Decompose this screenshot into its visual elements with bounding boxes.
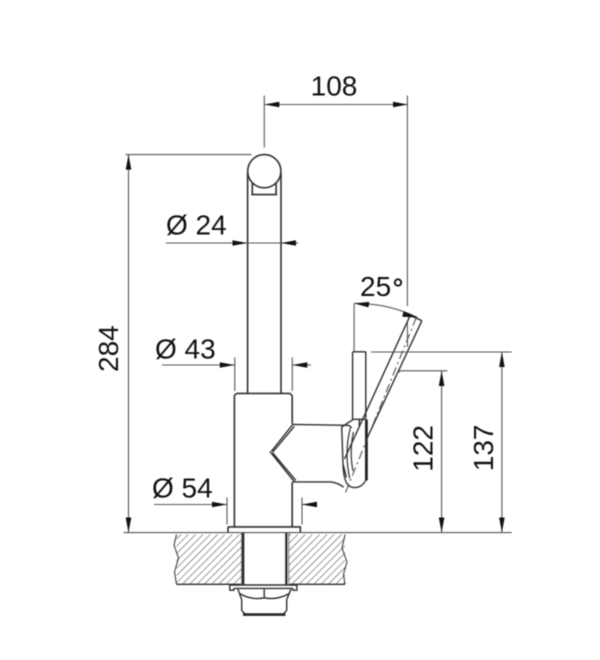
nut bottom thick edge: [243, 613, 285, 616]
hex nut body: [242, 599, 287, 615]
countertop surface line: [124, 532, 512, 534]
arrow D54 left: [212, 502, 227, 508]
arrow 122 bottom: [439, 518, 445, 533]
ext line D54 right: [301, 498, 303, 525]
arrow 284 bottom: [126, 518, 132, 533]
countertop hatch right block: [289, 535, 345, 585]
countertop hatch left block: [177, 535, 242, 585]
arrow 137 top: [499, 352, 505, 367]
counter hole walls: [241, 534, 289, 584]
dim line 108: [264, 104, 408, 106]
ext line 108 right: [406, 96, 408, 348]
arrow arc right: [402, 311, 417, 317]
dim line 122: [441, 371, 443, 533]
ext line 25deg: [353, 304, 355, 352]
washer under counter: [230, 585, 297, 590]
cap right thick edge: [365, 420, 368, 481]
counter break edge right: [342, 535, 347, 585]
body cylinder: [234, 393, 292, 527]
counter break edge left: [174, 535, 179, 585]
svg-text:25: 25: [360, 271, 391, 302]
hex nut chamfer band: [238, 589, 291, 599]
rod base skirt: [347, 428, 353, 479]
shank through counter: [243, 533, 286, 585]
dim line 284: [128, 155, 130, 533]
ext line D43 right: [291, 358, 293, 392]
arrow D24 right: [281, 240, 296, 246]
arrow D24 left: [233, 240, 248, 246]
ext line 122: [396, 371, 448, 376]
ext line D54 left: [226, 498, 228, 525]
arrow D43 left: [220, 362, 235, 368]
arrow 108 left: [264, 102, 279, 108]
countertop bottom line right: [289, 583, 345, 585]
dim line D54 left: [154, 504, 227, 506]
handle vertical (phantom position): [353, 352, 366, 427]
svg-text:122: 122: [408, 425, 439, 472]
dim line D43 left: [162, 364, 235, 366]
arrow D43 right: [292, 362, 307, 368]
arrow D54 right: [302, 502, 317, 508]
base flange: [228, 527, 300, 533]
arrow 137 bottom: [499, 518, 505, 533]
svg-text:108: 108: [311, 71, 358, 102]
angle arc: [354, 303, 417, 317]
dim line 137: [501, 352, 503, 533]
dim line D43 right: [292, 364, 311, 366]
cartridge cap: [342, 419, 366, 487]
side valve horn: [270, 424, 351, 488]
dim line D54 right: [302, 504, 317, 506]
ext line D43 left: [234, 358, 236, 392]
ext line 284 top: [126, 154, 252, 156]
spout pipe wall left: [247, 173, 249, 393]
arrow 108 right: [393, 102, 408, 108]
arrow arc left: [354, 302, 369, 308]
arrow 284 top: [126, 155, 132, 170]
dim line D24: [166, 242, 298, 244]
ext line 108 left: [263, 96, 265, 148]
svg-text:137: 137: [468, 425, 499, 472]
svg-text:Ø 54: Ø 54: [152, 473, 213, 504]
svg-text:Ø 43: Ø 43: [155, 334, 216, 365]
aerator under sphere: [251, 183, 277, 195]
svg-text:Ø 24: Ø 24: [166, 210, 227, 241]
handle lever rod tilted 25deg: [345, 315, 422, 459]
arrow 122 top: [439, 371, 445, 386]
rod centerline dash-dot: [346, 317, 417, 492]
ext line 137: [371, 351, 512, 353]
spout top sphere: [248, 155, 281, 188]
svg-text:284: 284: [93, 325, 124, 372]
spout pipe wall right: [280, 173, 282, 393]
countertop bottom line left: [177, 583, 242, 585]
